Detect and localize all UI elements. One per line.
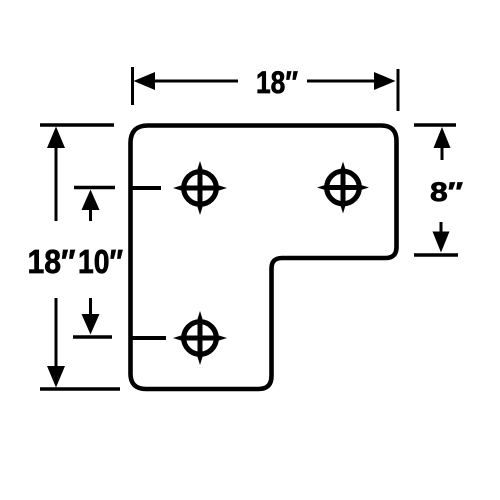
svg-text:8″: 8″ — [430, 177, 463, 207]
svg-text:18″: 18″ — [256, 64, 298, 100]
svg-text:10″: 10″ — [78, 243, 123, 280]
svg-text:18″: 18″ — [28, 243, 76, 280]
